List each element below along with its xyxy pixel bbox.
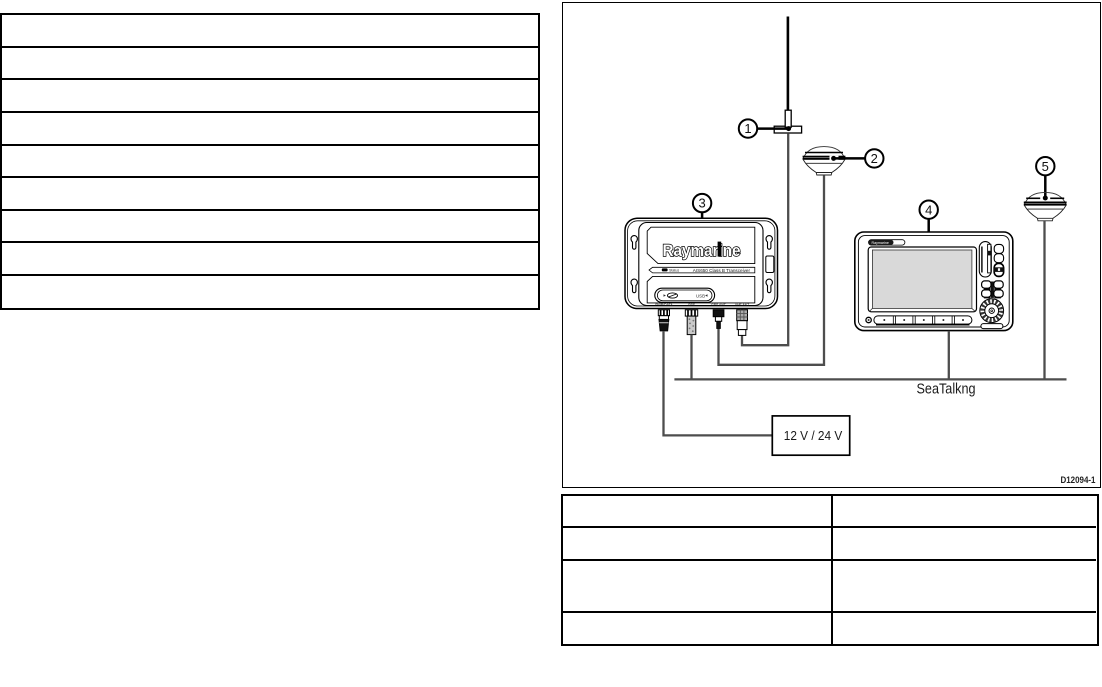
- callout 2 leader line and dot: [830, 156, 866, 162]
- callout circle 5: [1036, 157, 1054, 175]
- display side buttons right column: [994, 244, 1003, 276]
- svg-text:5: 5: [1042, 159, 1049, 174]
- transceiver front pill (buzzer / usb markings): [655, 288, 715, 302]
- callout circle 4: [920, 201, 938, 219]
- SeaTalkng antenna dome (item 5): [1024, 192, 1067, 220]
- svg-text:Status: Status: [669, 269, 679, 273]
- display rotary knob: [980, 299, 1004, 323]
- callout circle 1: [739, 119, 757, 137]
- svg-text:VHF ANT: VHF ANT: [735, 303, 749, 307]
- multifunction display body (item 4): [855, 232, 1013, 331]
- svg-text:2: 2: [871, 151, 878, 166]
- svg-text:Raymarine: Raymarine: [663, 241, 741, 260]
- table row line 2: [562, 559, 1096, 561]
- svg-text:3: 3: [698, 196, 705, 211]
- svg-text:4: 4: [925, 202, 932, 217]
- callout 5 leader line and dot: [1043, 176, 1048, 201]
- svg-text:SeaTalkng: SeaTalkng: [917, 381, 976, 397]
- table: blank parts table bottom-right: [561, 494, 1099, 646]
- connector labels under transceiver: [655, 303, 749, 307]
- display screen bezel: [868, 247, 976, 312]
- table column divider: [831, 495, 833, 644]
- transceiver status strip: [649, 267, 755, 273]
- display power button: [866, 317, 871, 322]
- transceiver mounting keyhole bottom-right: [766, 279, 772, 293]
- VHF antenna mount bracket: [774, 110, 801, 133]
- VHF ANT connector plug: [737, 310, 748, 336]
- display softkey bar: [874, 316, 972, 325]
- transceiver right-side slot: [766, 256, 774, 273]
- diagram frame: border of installation diagram: [562, 2, 1101, 488]
- display brand pill: [869, 240, 905, 245]
- display rocker control pill: [979, 242, 991, 277]
- transceiver mounting keyhole top-left: [631, 236, 637, 250]
- wire: transceiver power lead to 12V/24V supply: [664, 331, 773, 435]
- AIS650 transceiver body (item 3): [625, 218, 778, 308]
- svg-text:D12094-1: D12094-1: [1061, 475, 1096, 485]
- SeaTalkng bus wire: [674, 378, 1066, 380]
- GPS ANT connector plug: [713, 310, 724, 329]
- table row line 1: [562, 526, 1096, 528]
- Raymarine logo (outline lettering): [663, 241, 741, 260]
- 12V / 24V power supply box: [772, 416, 849, 455]
- display screen: [872, 250, 972, 308]
- PWR/DATA connector plug: [658, 310, 669, 331]
- wire: GPS antenna down and across to transceiver GPS ANT connector: [719, 175, 825, 365]
- table row line 3: [562, 611, 1096, 613]
- transceiver top label panel: [647, 227, 755, 263]
- VHF antenna whip (item 1): [787, 17, 790, 112]
- svg-text:GPS: GPS: [688, 303, 696, 307]
- wire: transceiver SeaTalkng connector down to bus: [690, 335, 692, 380]
- svg-text:PWR/DATA: PWR/DATA: [655, 303, 673, 307]
- callout circle 2: [865, 149, 883, 167]
- wire: display down to SeaTalkng bus: [948, 331, 950, 380]
- transceiver mounting keyhole bottom-left: [631, 279, 637, 293]
- GPS/data connector plug (SeaTalkng): [685, 310, 697, 335]
- transceiver mounting keyhole top-right: [766, 236, 772, 250]
- wire: VHF antenna down to transceiver VHF ANT connector: [742, 133, 788, 345]
- svg-text:12 V / 24 V: 12 V / 24 V: [784, 428, 843, 443]
- callout 4 leader line and dot: [926, 219, 931, 244]
- display 2x2 button cluster: [982, 281, 1004, 299]
- callout 1 leader line and dot: [757, 126, 792, 131]
- table: blank notes table top-left (9 empty rows): [0, 13, 540, 309]
- wire: item5 dome down to SeaTalkng bus: [1043, 221, 1045, 379]
- svg-text:AIS650 Class B Transceiver: AIS650 Class B Transceiver: [693, 268, 751, 273]
- svg-text:1: 1: [744, 121, 751, 136]
- svg-text:GPS ANT: GPS ANT: [711, 303, 726, 307]
- display bottom grille pill: [981, 324, 1003, 329]
- svg-text:USB: USB: [696, 293, 705, 298]
- transceiver lower panel: [647, 276, 755, 303]
- callout circle 3: [693, 194, 711, 212]
- callout 3 leader line and dot: [700, 213, 705, 238]
- svg-text:Raymarine: Raymarine: [872, 241, 889, 245]
- GPS antenna dome (item 2): [803, 147, 846, 175]
